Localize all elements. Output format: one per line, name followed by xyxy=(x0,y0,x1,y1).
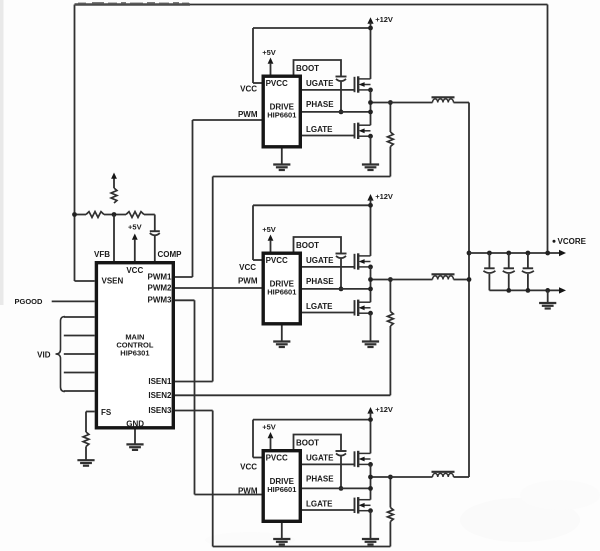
svg-text:VFB: VFB xyxy=(94,250,110,259)
label ISEN2 xyxy=(148,391,172,400)
wire: BOOT loop driver 1 xyxy=(294,60,342,76)
label PWM driver 2 xyxy=(238,277,258,286)
svg-text:PHASE: PHASE xyxy=(306,100,334,109)
node: cap 1 top xyxy=(487,251,492,256)
svg-text:PWM2: PWM2 xyxy=(148,284,173,293)
resistor R2 (VFB to COMP) xyxy=(126,212,144,218)
node: rail / phase 2 xyxy=(467,277,472,282)
node: ISEN1 tap on phase 1 xyxy=(388,100,393,105)
node: cap 3 top xyxy=(526,251,531,256)
label PWM3 xyxy=(148,296,173,305)
svg-text:ISEN2: ISEN2 xyxy=(148,391,172,400)
wire: phase vertical driver 2 xyxy=(370,267,372,302)
label DRIVE HIP6601 driver 3 xyxy=(267,477,296,494)
label BOOT driver 3 xyxy=(296,438,319,447)
wire: UGATE driver 1 xyxy=(302,89,355,91)
wire: VSEN pin xyxy=(75,280,95,282)
label UGATE driver 1 xyxy=(306,79,334,88)
wire: phase vertical driver 1 xyxy=(370,90,372,125)
label PWM driver 1 xyxy=(238,110,258,119)
node: ISEN2 tap on phase 2 xyxy=(388,277,393,282)
power +12V driver 1 xyxy=(367,15,393,79)
transistor Q4 (lower FET driver 2) xyxy=(355,300,373,316)
label PWM2 xyxy=(148,284,173,293)
label +VCORE xyxy=(553,237,587,246)
svg-text:PWM3: PWM3 xyxy=(148,296,173,305)
svg-text:ISEN3: ISEN3 xyxy=(148,406,172,415)
ground (FS resistor) xyxy=(77,460,94,466)
transistor Q3 (upper FET driver 2) xyxy=(355,253,373,269)
wire: VFB pin xyxy=(113,215,115,263)
label VSEN xyxy=(102,276,124,285)
svg-text:HIP6601: HIP6601 xyxy=(267,485,296,494)
main control U1 HIP6301 box xyxy=(96,263,173,428)
svg-text:PHASE: PHASE xyxy=(306,475,334,484)
wire: +12V/VCC rail driver 1 xyxy=(253,28,371,83)
wire: phase vertical driver 3 xyxy=(370,464,372,499)
svg-text:PGOOD: PGOOD xyxy=(15,297,44,306)
wire: PHASE pin driver 2 xyxy=(302,287,373,292)
svg-text:PWM: PWM xyxy=(238,277,258,286)
power +5V driver 3 xyxy=(262,423,276,450)
svg-text:LGATE: LGATE xyxy=(306,500,333,509)
node: cap 3 bottom xyxy=(526,288,531,293)
svg-text:+5V: +5V xyxy=(262,225,276,234)
svg-text:PHASE: PHASE xyxy=(306,277,334,286)
ground (output bus) xyxy=(539,290,556,308)
wire: BOOT loop driver 2 xyxy=(294,237,342,253)
wire: VID bit 4 xyxy=(64,390,95,392)
svg-text:+5V: +5V xyxy=(128,223,142,232)
ground (lower FET driver 3) xyxy=(362,511,379,545)
resistor R7 (ISEN3) xyxy=(388,477,394,521)
svg-text:HIP6601: HIP6601 xyxy=(267,111,296,120)
label LGATE driver 3 xyxy=(306,500,333,509)
resistor R6 (ISEN2) xyxy=(388,280,394,326)
svg-text:PVCC: PVCC xyxy=(266,256,288,265)
wire: UGATE driver 3 xyxy=(302,463,355,465)
svg-text:FS: FS xyxy=(101,408,112,417)
svg-text:UGATE: UGATE xyxy=(306,256,334,265)
svg-text:UGATE: UGATE xyxy=(306,454,334,463)
node: ISEN3 tap on phase 3 xyxy=(388,475,393,480)
label BOOT driver 1 xyxy=(296,64,319,73)
power +12V driver 2 xyxy=(367,192,393,256)
wire: PHASE pin driver 3 xyxy=(302,486,373,491)
power +5V driver 2 xyxy=(262,225,276,252)
label DRIVE HIP6601 driver 1 xyxy=(267,103,296,120)
svg-text:VCC: VCC xyxy=(240,463,257,472)
label VCC (main) xyxy=(126,266,143,275)
power +12V driver 3 xyxy=(367,405,393,454)
svg-text:UGATE: UGATE xyxy=(306,79,334,88)
svg-text:BOOT: BOOT xyxy=(296,64,319,73)
wire: LGATE driver 3 xyxy=(302,509,355,511)
wire: PGOOD pin xyxy=(52,300,95,302)
wire: PWM1 to driver 1 xyxy=(175,120,262,277)
svg-text:+12V: +12V xyxy=(375,192,393,201)
svg-text:LGATE: LGATE xyxy=(306,302,333,311)
ground (lower FET driver 2) xyxy=(362,313,379,347)
arrow: ground bus return xyxy=(559,287,566,293)
wire: VCORE bus xyxy=(469,252,560,254)
wire: PWM3 to driver 3 xyxy=(175,300,262,494)
label PHASE driver 3 xyxy=(306,475,334,484)
svg-text:+12V: +12V xyxy=(375,405,393,414)
node: ground tap xyxy=(545,288,550,293)
wire: PWM2 to driver 2 xyxy=(175,287,262,289)
label UGATE driver 3 xyxy=(306,454,334,463)
node: cap 2 bottom xyxy=(506,288,511,293)
transistor Q5 (upper FET driver 3) xyxy=(355,451,373,467)
resistor R4 (FS) xyxy=(83,432,89,460)
label UGATE driver 2 xyxy=(306,256,334,265)
wire: ISEN2 route xyxy=(175,326,390,395)
label PGOOD xyxy=(15,297,44,306)
wire: BOOT loop driver 3 xyxy=(294,435,342,451)
svg-text:BOOT: BOOT xyxy=(296,241,319,250)
inductor L3 xyxy=(432,472,455,477)
wire: output ground bus xyxy=(489,289,559,291)
svg-text:VCORE: VCORE xyxy=(558,237,587,246)
wire: +12V/VCC rail driver 2 xyxy=(253,205,371,260)
label VCC driver 3 xyxy=(240,463,257,472)
label PHASE driver 2 xyxy=(306,277,334,286)
svg-text:HIP6601: HIP6601 xyxy=(267,288,296,297)
ground (main GND) xyxy=(126,444,143,450)
inductor L1 xyxy=(432,97,455,102)
node: right rail / VCORE bus xyxy=(545,251,550,256)
capacitor C3 (output) xyxy=(503,253,515,290)
driver U3 HIP6601 box xyxy=(263,253,300,324)
transistor Q6 (lower FET driver 3) xyxy=(355,497,373,513)
resistor R3 (VFB pullup) xyxy=(111,173,117,204)
wire: phase bus driver 2 xyxy=(368,277,469,282)
label PVCC driver 3 xyxy=(266,454,288,463)
svg-text:PWM: PWM xyxy=(238,110,258,119)
label VID xyxy=(37,350,51,359)
resistor R1 (VSEN to VFB) xyxy=(86,212,104,218)
wire: feedback node horizontal xyxy=(75,214,155,216)
label PHASE driver 1 xyxy=(306,100,334,109)
svg-text:+5V: +5V xyxy=(262,48,276,57)
ground (driver 3 GND) xyxy=(273,523,290,545)
brace VID xyxy=(56,317,66,392)
label FS xyxy=(101,408,112,417)
capacitor C1 (COMP) xyxy=(150,215,160,263)
label LGATE driver 1 xyxy=(306,125,333,134)
arrow: VCORE output xyxy=(559,250,566,256)
wire: ISEN1 route xyxy=(175,147,390,382)
svg-text:VID: VID xyxy=(37,350,51,359)
wire: LGATE driver 2 xyxy=(302,312,355,314)
wire: VID bit 2 xyxy=(64,353,95,355)
svg-text:PWM: PWM xyxy=(238,487,258,496)
wire: phase bus driver 1 xyxy=(368,100,469,105)
wire: VID bit 0 xyxy=(64,316,95,318)
inductor L2 xyxy=(432,274,455,279)
capacitor C boot driver 1 xyxy=(336,77,347,115)
wire: right feedback rail xyxy=(547,5,549,254)
label GND (main) xyxy=(126,420,144,429)
label VFB xyxy=(94,250,110,259)
svg-text:PVCC: PVCC xyxy=(266,454,288,463)
svg-text:LGATE: LGATE xyxy=(306,125,333,134)
wire: VCORE summing rail xyxy=(468,103,470,478)
svg-text:VSEN: VSEN xyxy=(102,276,124,285)
wire: phase bus driver 3 xyxy=(368,475,469,480)
driver U2 HIP6601 box xyxy=(263,76,300,147)
wire: GND pin xyxy=(134,430,136,445)
svg-text:PVCC: PVCC xyxy=(266,79,288,88)
wire: PHASE pin driver 1 xyxy=(302,110,373,115)
label DRIVE HIP6601 driver 2 xyxy=(267,280,296,297)
svg-text:GND: GND xyxy=(126,420,144,429)
label PVCC driver 1 xyxy=(266,79,288,88)
ground (lower FET driver 1) xyxy=(362,136,379,170)
wire: LGATE driver 1 xyxy=(302,135,355,137)
label LGATE driver 2 xyxy=(306,302,333,311)
wire: ISEN3 route xyxy=(175,411,390,547)
label VCC driver 1 xyxy=(240,85,257,94)
svg-text:VCC: VCC xyxy=(240,85,257,94)
wire: VCORE feedback top rail xyxy=(75,4,548,6)
label COMP xyxy=(158,250,183,259)
power +5V main VCC xyxy=(128,223,142,263)
wire: UGATE driver 2 xyxy=(302,266,355,268)
node: cap 2 top xyxy=(506,251,511,256)
transistor Q1 (upper FET driver 1) xyxy=(355,76,373,92)
label VCC driver 2 xyxy=(239,263,256,272)
cropped text remnants top edge xyxy=(75,2,191,4)
label MAIN CONTROL HIP6301 xyxy=(116,333,153,358)
label BOOT driver 2 xyxy=(296,241,319,250)
wire: VID bit 1 xyxy=(64,335,95,337)
driver U4 HIP6601 box xyxy=(263,451,300,522)
label PWM driver 3 xyxy=(238,487,258,496)
power +5V driver 1 xyxy=(262,48,276,75)
svg-text:+12V: +12V xyxy=(375,15,393,24)
wire: FS pin xyxy=(86,412,95,433)
svg-text:ISEN1: ISEN1 xyxy=(148,377,172,386)
ground (driver 2 GND) xyxy=(273,326,290,348)
capacitor C4 (output) xyxy=(522,253,534,290)
resistor R5 (ISEN1) xyxy=(388,103,394,147)
ground (driver 1 GND) xyxy=(273,149,290,171)
capacitor C boot driver 3 xyxy=(336,451,347,491)
svg-text:+5V: +5V xyxy=(262,423,276,432)
wire: +12V/VCC rail driver 3 xyxy=(253,420,371,458)
capacitor C boot driver 2 xyxy=(336,254,347,292)
wire: VID bit 3 xyxy=(64,372,95,374)
transistor Q2 (lower FET driver 1) xyxy=(355,123,373,139)
svg-text:VCC: VCC xyxy=(239,263,256,272)
capacitor C2 (output) xyxy=(483,253,495,290)
label PWM1 xyxy=(148,272,173,281)
label PVCC driver 2 xyxy=(266,256,288,265)
node: junction left rail / feedback xyxy=(72,212,77,217)
svg-text:VCC: VCC xyxy=(126,266,143,275)
svg-text:PWM1: PWM1 xyxy=(148,272,173,281)
node: VFB junction xyxy=(112,212,117,217)
node: rail / VCORE bus xyxy=(467,251,472,256)
label ISEN1 xyxy=(148,377,172,386)
wire: left feedback rail xyxy=(74,5,76,282)
svg-text:BOOT: BOOT xyxy=(296,438,319,447)
label ISEN3 xyxy=(148,406,172,415)
svg-text:HIP6301: HIP6301 xyxy=(120,349,149,358)
svg-text:COMP: COMP xyxy=(158,250,183,259)
